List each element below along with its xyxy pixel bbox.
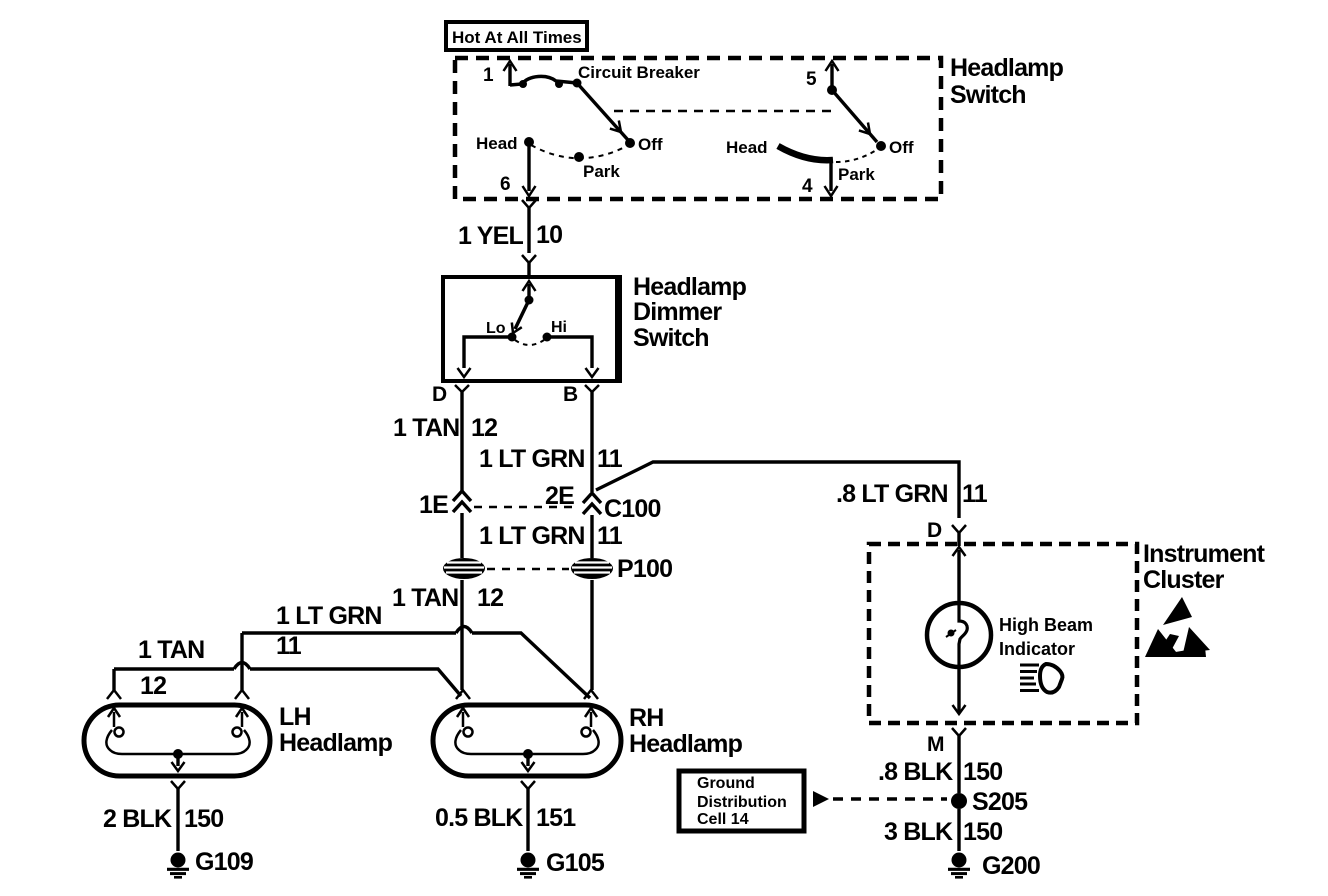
RH low filament pin arrow	[457, 708, 469, 727]
svg-text:Park: Park	[838, 165, 875, 184]
connector C100 dashed link	[474, 506, 578, 509]
svg-text:.8 BLK: .8 BLK	[878, 758, 953, 786]
svg-text:2 BLK: 2 BLK	[103, 805, 172, 833]
svg-text:.8 LT GRN: .8 LT GRN	[836, 480, 948, 508]
svg-text:B: B	[563, 383, 578, 406]
wire to bulb	[957, 560, 960, 604]
svg-text:C100: C100	[604, 495, 661, 523]
wire .8 LT GRN 11 branch to instrument cluster	[596, 462, 959, 518]
svg-text:1 LT GRN: 1 LT GRN	[479, 445, 585, 473]
wire 1 LT GRN 11 (B down to C100)	[590, 400, 593, 492]
svg-text:Ground: Ground	[697, 775, 755, 792]
node Off (left)	[625, 138, 635, 148]
node Off (right)	[876, 141, 886, 151]
svg-text:Switch: Switch	[633, 324, 709, 352]
LH ground pin arrow	[172, 754, 185, 771]
svg-text:Distribution: Distribution	[697, 794, 787, 811]
LH low filament pin arrow	[108, 708, 120, 727]
svg-text:LH: LH	[279, 703, 311, 731]
svg-text:RH: RH	[629, 704, 664, 732]
svg-text:Headlamp: Headlamp	[629, 730, 743, 758]
svg-text:1 TAN: 1 TAN	[393, 414, 459, 442]
svg-text:Headlamp: Headlamp	[633, 273, 747, 301]
wire 1 YEL 10	[527, 215, 530, 253]
svg-text:1: 1	[483, 65, 494, 86]
svg-text:P100: P100	[617, 555, 672, 583]
RH common ground junction	[523, 749, 533, 759]
wire bulb to pin M	[957, 667, 960, 712]
svg-text:4: 4	[802, 176, 813, 197]
lamp high beam indicator	[927, 603, 991, 667]
svg-text:1 LT GRN: 1 LT GRN	[479, 522, 585, 550]
svg-text:D: D	[432, 383, 447, 406]
label Headlamp Dimmer Switch	[633, 273, 747, 352]
ground G109	[167, 853, 189, 878]
pin 1 terminal arrow	[504, 61, 517, 86]
RH headlamp E2 outline	[433, 705, 621, 776]
svg-text:Lo: Lo	[486, 320, 506, 337]
P100 dashed link	[487, 568, 569, 571]
svg-text:Head: Head	[476, 134, 518, 153]
pin 5 terminal arrow	[826, 61, 839, 90]
svg-text:11: 11	[597, 445, 623, 473]
wiper blade in Head position (thick)	[778, 146, 833, 160]
wire 0.5 BLK 151	[526, 796, 529, 851]
pin B label and connector Y	[563, 383, 599, 406]
svg-text:D: D	[927, 519, 942, 542]
RH ground pin arrow	[522, 754, 535, 771]
svg-text:Circuit Breaker: Circuit Breaker	[578, 63, 700, 82]
wire Hi to pin B (inside box)	[547, 337, 599, 377]
svg-text:1 TAN: 1 TAN	[138, 636, 204, 664]
circuit breaker CB	[510, 76, 582, 88]
ESD sensitive symbol	[1145, 597, 1210, 657]
svg-text:151: 151	[536, 804, 576, 832]
svg-text:Cell 14: Cell 14	[697, 811, 749, 828]
instrument cluster dashed outline	[869, 544, 1137, 723]
svg-text:Hi: Hi	[551, 319, 567, 336]
LH terminal connector chevrons	[107, 690, 249, 699]
svg-text:1 YEL: 1 YEL	[458, 222, 524, 250]
LH bulb filaments	[106, 728, 249, 755]
svg-text:150: 150	[963, 818, 1002, 846]
connector (female Y) below switch	[522, 200, 536, 215]
svg-text:G105: G105	[546, 849, 605, 877]
svg-text:3 BLK: 3 BLK	[884, 818, 953, 846]
splice S205	[951, 793, 967, 809]
dimmer switch S2 box	[443, 277, 620, 381]
dashed travel arc Lo-Hi	[515, 340, 544, 345]
pin M label and connector Y	[927, 728, 966, 756]
wire 1 TAN 12 cross feed	[114, 663, 461, 697]
dimmer blade to Lo	[508, 300, 529, 335]
svg-text:6: 6	[500, 174, 511, 195]
svg-text:G109: G109	[195, 848, 253, 876]
node Park (left) with dashed travel arc	[531, 145, 627, 181]
svg-text:Off: Off	[638, 135, 663, 154]
pin D label and connector Y	[432, 383, 469, 406]
switch pivot (right half)	[827, 85, 837, 95]
wire 1 LT GRN (P100 down to RH headlamp hi)	[590, 580, 593, 690]
pin D label and connector Y	[927, 519, 966, 546]
svg-text:12: 12	[477, 584, 503, 612]
ground distribution cell box	[679, 771, 804, 831]
wire Lo to pin D (inside box)	[458, 337, 513, 377]
cluster output pin arrow	[953, 705, 966, 714]
svg-text:0.5 BLK: 0.5 BLK	[435, 804, 523, 832]
svg-text:M: M	[927, 733, 945, 756]
RH terminal connector chevrons	[456, 690, 598, 699]
cluster input pin arrow	[953, 547, 966, 560]
svg-text:11: 11	[276, 632, 302, 660]
mechanical link dashed line	[614, 110, 838, 113]
dimmer input pin arrow	[523, 281, 536, 300]
svg-text:Headlamp: Headlamp	[950, 54, 1064, 82]
wire .8 BLK 150	[957, 743, 960, 793]
wire 1 LT GRN 11 cross feed	[242, 627, 590, 699]
svg-text:Cluster: Cluster	[1143, 566, 1225, 594]
dashed reference wire to S205	[833, 797, 947, 800]
svg-text:Park: Park	[583, 162, 620, 181]
wire 1 TAN 12 (D down to C100)	[460, 400, 463, 492]
svg-text:12: 12	[140, 672, 166, 700]
switch blade wire to Off (right half)	[832, 90, 877, 142]
pin 4 wire down	[802, 161, 838, 197]
dashed travel arc right half	[836, 149, 878, 162]
connector (female Y) above dimmer	[522, 255, 536, 278]
label Instrument Cluster	[1143, 540, 1266, 594]
wire 1 TAN 12 (P100 down to RH headlamp)	[460, 580, 463, 690]
svg-text:150: 150	[184, 805, 223, 833]
reference arrow	[813, 791, 829, 807]
RH bulb filaments	[455, 728, 598, 755]
svg-text:Indicator: Indicator	[999, 639, 1075, 659]
ground G105	[517, 853, 539, 878]
svg-text:Head: Head	[726, 138, 768, 157]
svg-text:Hot At All Times: Hot At All Times	[452, 28, 582, 47]
svg-text:1 LT GRN: 1 LT GRN	[276, 602, 382, 630]
svg-text:2E: 2E	[545, 482, 574, 510]
grommet P100 splice left	[443, 558, 485, 579]
svg-text:10: 10	[536, 221, 562, 249]
svg-text:S205: S205	[972, 788, 1028, 816]
wire 3 BLK 150	[957, 809, 960, 851]
RH high filament pin arrow	[585, 708, 597, 727]
connector C100 cavity 1E	[453, 491, 471, 558]
svg-text:11: 11	[597, 522, 623, 550]
svg-text:150: 150	[963, 758, 1002, 786]
svg-text:11: 11	[962, 480, 988, 508]
RH ground connector Y	[521, 781, 535, 796]
svg-text:Instrument: Instrument	[1143, 540, 1266, 568]
svg-text:High Beam: High Beam	[999, 615, 1093, 635]
high beam icon	[1020, 664, 1062, 693]
svg-text:Off: Off	[889, 138, 914, 157]
LH headlamp E1 outline	[84, 705, 270, 776]
dimmer pivot	[525, 296, 534, 305]
ground G200	[948, 853, 970, 878]
svg-text:12: 12	[471, 414, 497, 442]
LH ground connector Y	[171, 781, 185, 796]
svg-text:5: 5	[806, 69, 817, 90]
LH common ground junction	[173, 749, 183, 759]
svg-text:1 TAN: 1 TAN	[392, 584, 458, 612]
headlamp switch S1 dashed outline	[455, 58, 941, 199]
grommet P100 splice right	[571, 558, 613, 579]
switch blade wire to Off (left half)	[577, 83, 628, 140]
svg-text:1E: 1E	[419, 491, 448, 519]
svg-text:Headlamp: Headlamp	[279, 729, 393, 757]
svg-text:Switch: Switch	[950, 81, 1026, 109]
svg-text:G200: G200	[982, 852, 1040, 880]
svg-text:Dimmer: Dimmer	[633, 298, 722, 326]
label Headlamp Switch	[950, 54, 1064, 109]
wire 2 BLK 150	[176, 796, 179, 851]
LH high filament pin arrow	[236, 708, 248, 727]
node Hot At All Times box	[446, 22, 587, 50]
pin 6 wire down from Head	[500, 142, 536, 196]
